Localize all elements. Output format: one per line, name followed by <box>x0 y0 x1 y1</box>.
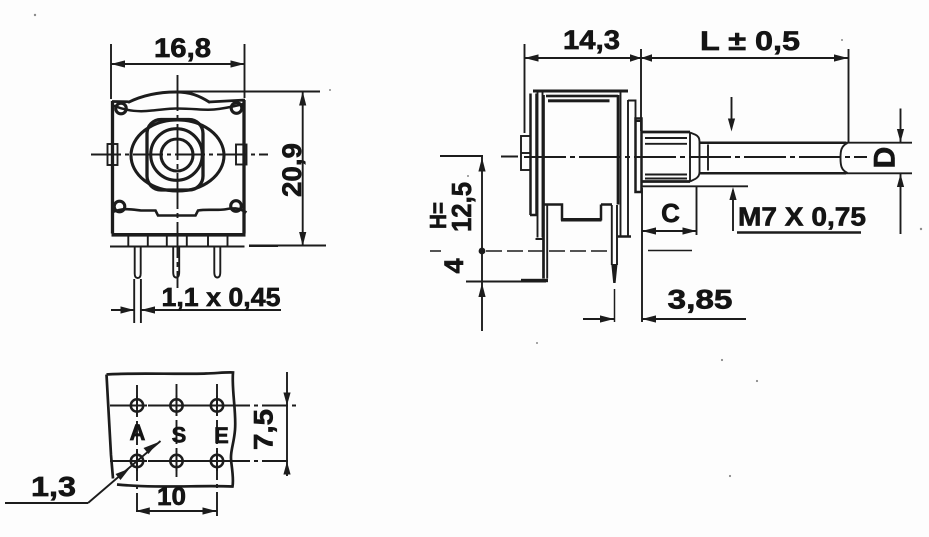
side centerline left dash <box>501 156 518 158</box>
body left edge and leg <box>542 95 545 279</box>
dim H line <box>481 157 483 251</box>
side pin dashed extension <box>614 289 616 322</box>
svg-text:7,5: 7,5 <box>249 409 279 450</box>
inner shaft hole circle <box>161 139 193 171</box>
column 2 centerline <box>176 384 178 477</box>
mount washer <box>636 119 642 193</box>
footprint outline <box>107 372 236 486</box>
row 2 centerline <box>110 460 288 462</box>
dim C right extension <box>696 186 698 235</box>
hole A bottom <box>131 455 143 467</box>
dim C left arrow <box>642 227 656 234</box>
leader 1,3 diagonal <box>88 441 161 503</box>
rounded square of rotor <box>147 120 203 191</box>
M7 leader vertical with arrow <box>732 190 734 231</box>
right step profile <box>628 101 642 122</box>
dim L right arrow <box>834 54 848 61</box>
dim 10 right arrow <box>203 507 217 514</box>
body inner top dark line <box>548 99 610 102</box>
pin 3 <box>214 247 220 278</box>
dim D upper line <box>900 109 902 143</box>
horizontal centerline front view <box>91 154 268 156</box>
M7 underline <box>737 231 861 234</box>
corner rivet top-right <box>231 103 242 114</box>
dim 14,3 left arrow <box>525 54 539 61</box>
svg-text:10: 10 <box>157 483 186 511</box>
dim 20,9 top arrow <box>299 92 306 106</box>
hole S bottom <box>170 455 182 467</box>
dim 7,5 bottom arrow <box>283 462 290 475</box>
pin 2 shoulder <box>167 237 187 247</box>
pin shoulder base line <box>110 246 245 248</box>
dim H node dot <box>479 248 486 255</box>
seating plane right segment <box>648 250 692 252</box>
dim 3,85 right line <box>642 318 746 320</box>
shaft bottom edge extension <box>846 172 912 174</box>
front body top-left segment <box>112 100 129 103</box>
right plate 1 <box>621 92 629 237</box>
svg-text:A: A <box>130 420 146 445</box>
hole S top <box>170 399 182 411</box>
dim 4 bottom arrow <box>478 283 485 297</box>
dim 20,9 bottom arrow <box>299 232 306 246</box>
dim 14,3 line <box>525 57 642 59</box>
top cover hump curve <box>128 92 210 103</box>
svg-text:12,5: 12,5 <box>446 182 477 232</box>
left plate 2 <box>536 92 544 239</box>
bushing bottom edge <box>642 180 691 183</box>
dim L right extension <box>848 49 850 143</box>
dim D lower arrow <box>897 174 904 187</box>
front body left edge <box>111 101 114 234</box>
body bottom profile with notch <box>544 205 613 221</box>
dim 16,8 left extension line <box>110 44 112 99</box>
svg-text:14,3: 14,3 <box>563 25 620 55</box>
dim 16,8 left arrow <box>111 60 125 67</box>
dim 20,9 line <box>302 92 304 247</box>
corner rivet bottom-left <box>114 201 125 212</box>
dim 16,8 line <box>111 63 245 65</box>
notch floor thick <box>561 219 602 222</box>
dim H top arrow <box>478 158 485 172</box>
body right edge <box>617 95 620 205</box>
dim 1,1x0,45 right line <box>141 309 281 311</box>
dim 3,85 right arrow <box>642 315 656 322</box>
dim 20,9 bottom extension line <box>249 245 326 247</box>
side tab midline <box>521 152 531 154</box>
dim 16,8 right extension line <box>244 44 246 98</box>
bushing top edge <box>642 131 691 134</box>
svg-text:M7 X 0,75: M7 X 0,75 <box>738 202 866 232</box>
dim 1,1x0,45 left arrow <box>121 306 135 313</box>
hole E top <box>211 399 223 411</box>
body top edge inner <box>546 95 618 98</box>
svg-text:1,1 x 0,45: 1,1 x 0,45 <box>162 282 281 312</box>
middle circle of rotor <box>151 129 203 181</box>
pin width extension lines <box>134 279 141 323</box>
dim H top extension <box>440 155 483 157</box>
pin 1 shoulder <box>128 237 148 247</box>
svg-text:3,85: 3,85 <box>668 285 733 315</box>
front body bottom edge <box>112 233 246 237</box>
svg-text:16,8: 16,8 <box>154 33 211 63</box>
svg-text:L ± 0,5: L ± 0,5 <box>700 26 800 56</box>
dim D upper arrow <box>897 129 904 142</box>
dim 3,85 left line <box>583 318 614 320</box>
bottom cover wavy line <box>113 208 247 215</box>
svg-text:D: D <box>869 147 902 169</box>
side tab (left) <box>521 136 531 170</box>
dim 1,1x0,45 right arrow <box>141 306 155 313</box>
shaft top edge extension <box>846 142 912 144</box>
corner rivet bottom-right <box>231 201 242 212</box>
svg-text:1,3: 1,3 <box>31 471 76 502</box>
dim 7,5 line <box>286 372 288 476</box>
leg foot <box>521 279 548 282</box>
dim L line <box>641 57 848 59</box>
svg-text:C: C <box>661 198 680 228</box>
dim 20,9 top extension line <box>175 91 320 93</box>
front body top-right segment <box>209 100 246 102</box>
bushing thread lines <box>645 138 687 179</box>
leg inner line <box>546 205 548 279</box>
leader 1,3 second arrowhead <box>144 443 158 455</box>
left side tab <box>108 144 118 165</box>
shoulder line extension dash <box>249 245 278 247</box>
hole cross ticks <box>127 396 227 472</box>
corner rivet top-left <box>116 103 127 114</box>
M7 leader horizontal <box>642 185 749 187</box>
body top edge outer <box>533 90 628 93</box>
svg-text:4: 4 <box>439 258 469 273</box>
dim 4 extension line <box>466 281 546 283</box>
left plate 1 <box>530 94 537 216</box>
vertical centerline front view <box>177 75 179 288</box>
shaft flat mark <box>707 145 709 171</box>
dim 1,1x0,45 left line <box>111 309 134 311</box>
dim 3,85 left arrow <box>600 315 614 322</box>
shaft end chamfer <box>841 143 848 173</box>
dim 3,85 extension (mount face) <box>641 188 643 322</box>
column 3 centerline <box>216 384 218 519</box>
hole A top <box>131 399 143 411</box>
bushing end cap <box>690 133 700 182</box>
svg-text:E: E <box>214 423 229 448</box>
hole E bottom <box>211 455 223 467</box>
dim 10 line <box>136 510 217 512</box>
dim 10 left arrow <box>136 507 150 514</box>
seating plane dashed line <box>430 250 610 252</box>
leader 1,3 arrowhead <box>116 469 130 481</box>
shaft bottom edge <box>700 172 846 175</box>
shaft top edge <box>700 141 846 144</box>
dim 14,3 / L shared diamond arrow <box>630 54 641 62</box>
dim 14,3 left extension <box>524 44 526 133</box>
dim 16,8 right arrow <box>231 60 245 67</box>
pin 1 <box>135 247 141 279</box>
right plate bottom edge <box>618 235 631 238</box>
top cover lower wavy line <box>113 104 244 111</box>
column 1 centerline <box>136 385 138 511</box>
pin 2 <box>173 247 179 278</box>
side pin <box>612 205 617 265</box>
front body right edge <box>242 100 245 234</box>
leader 1,3 horizontal <box>5 502 88 504</box>
row 1 centerline <box>110 405 298 407</box>
right side tab <box>236 145 247 165</box>
svg-text:S: S <box>172 423 187 448</box>
M7 top arrow <box>731 97 733 120</box>
dim D lower line <box>900 174 902 234</box>
outer ellipse of rotor <box>131 120 224 191</box>
dim C line <box>642 230 697 232</box>
dim 14,3 right extension <box>640 49 642 131</box>
dim 4 lower line <box>481 251 483 331</box>
dim C right arrow <box>683 227 697 234</box>
dim 7,5 top arrow <box>283 393 290 406</box>
side pin tip <box>611 264 617 283</box>
side main centerline <box>524 156 867 158</box>
pin 3 shoulder <box>208 237 228 247</box>
